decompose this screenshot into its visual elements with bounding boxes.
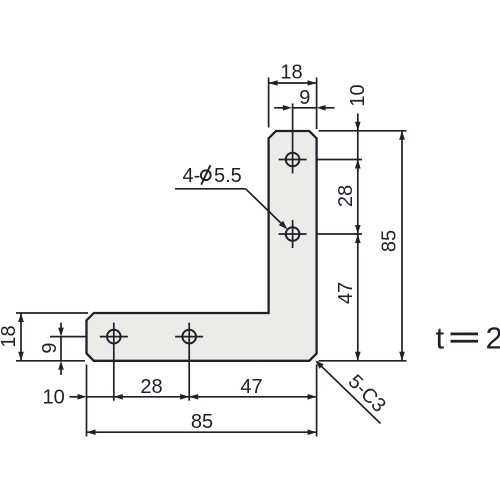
leader label 4-phi5.5 (hole size callout) <box>175 165 287 229</box>
extension line hole3 left <box>50 336 86 338</box>
extension line left edge down <box>86 365 88 437</box>
svg-text:28: 28 <box>335 185 357 207</box>
dimension 10 (right, top edge to hole1) <box>347 84 369 171</box>
bracket outline (L-shape, 5 chamfered corners) <box>87 131 317 361</box>
svg-text:4-: 4- <box>183 165 201 187</box>
svg-text:5.5: 5.5 <box>214 165 242 187</box>
extension line hole2 right <box>316 233 362 235</box>
dimension 85 (bottom, overall length) <box>87 411 317 435</box>
dimension 28 (bottom, hole3 to hole4) <box>114 376 189 400</box>
extension line bottom edge left <box>16 360 85 362</box>
svg-text:9: 9 <box>39 342 61 353</box>
dimension 47 (right, hole2 to bottom edge) <box>335 234 361 361</box>
extension line top edge left <box>16 312 88 314</box>
svg-text:28: 28 <box>140 376 162 398</box>
dimension 85 (right, overall height) <box>379 131 405 361</box>
dimension 9 (top, hole centerline to right edge) <box>274 87 334 111</box>
extension line bottom edge right <box>319 360 407 362</box>
svg-text:t: t <box>436 321 445 356</box>
leader label 5-C3 (chamfer callout) <box>315 360 390 423</box>
dimension 28 (right, hole1 to hole2) <box>335 160 361 235</box>
svg-text:10: 10 <box>42 387 64 409</box>
annotation t = 2 (plate thickness) <box>436 321 500 356</box>
extension line hole1 right <box>316 159 362 161</box>
dimension 18 (left, height of horizontal leg) <box>0 313 24 361</box>
dimension 9 (left, hole3 to bottom edge) <box>39 323 64 375</box>
svg-text:18: 18 <box>0 325 20 347</box>
hole H2 (second, vertical leg) <box>279 220 307 248</box>
dimension 47 (bottom, hole4 to right edge) <box>189 376 316 399</box>
svg-text:10: 10 <box>347 84 369 106</box>
hole H1 (top, vertical leg) <box>279 104 307 174</box>
hole H3 (horizontal leg, left) <box>100 323 128 401</box>
hole H4 (horizontal leg, right) <box>175 323 203 401</box>
svg-text:9: 9 <box>299 87 310 109</box>
svg-text:2: 2 <box>486 321 500 356</box>
svg-text:47: 47 <box>335 282 357 304</box>
svg-text:18: 18 <box>280 61 302 83</box>
dimension 10 (bottom, left edge to hole3) <box>42 387 122 409</box>
extension line top edge right <box>319 130 407 132</box>
dimension 18 (top width of vertical leg) <box>269 61 317 129</box>
svg-text:85: 85 <box>191 411 213 433</box>
extension line right edge down <box>316 365 318 437</box>
svg-text:85: 85 <box>379 230 401 252</box>
svg-text:47: 47 <box>240 376 262 398</box>
